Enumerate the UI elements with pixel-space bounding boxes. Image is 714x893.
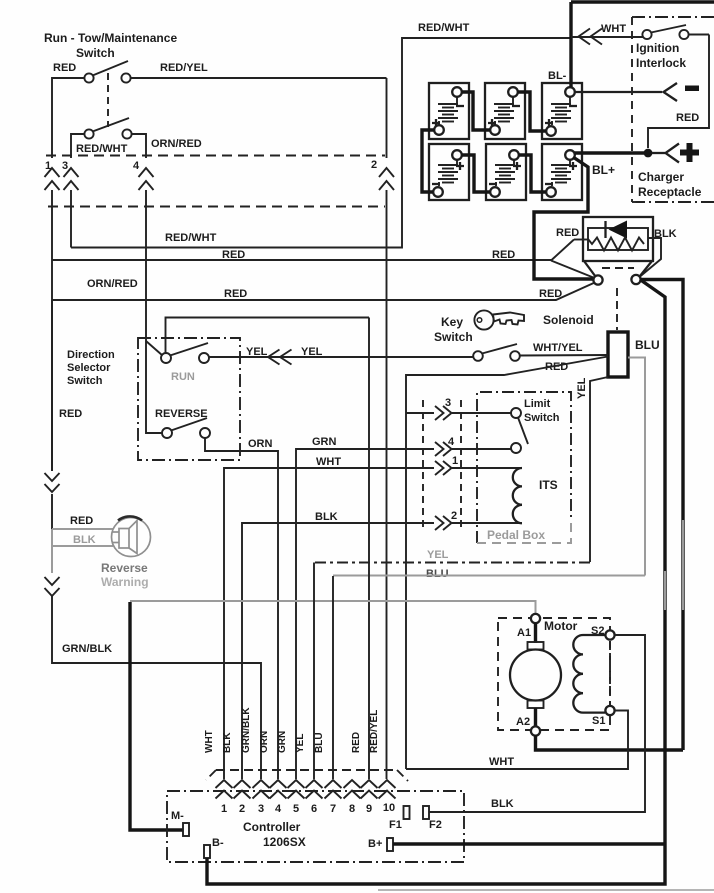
charger minus sign bbox=[685, 86, 699, 92]
svg-text:3: 3 bbox=[62, 160, 68, 172]
wire RED/YEL pole A to vertical bbox=[131, 77, 387, 79]
svg-text:RED/WHT: RED/WHT bbox=[76, 143, 128, 155]
dashed link S2-S1 bbox=[609, 641, 611, 705]
motor armature M1 bbox=[510, 623, 561, 727]
wire speaker BLK bbox=[52, 545, 113, 547]
reverse warning chevrons upper bbox=[45, 473, 60, 492]
battery B5 (row2) bbox=[486, 144, 526, 200]
speaker (reverse warning) bbox=[112, 518, 151, 557]
wire left bus lower bbox=[51, 300, 53, 529]
pin 9 bbox=[361, 780, 378, 799]
run-tow switch pole B bbox=[84, 118, 131, 139]
connector dashed line lower bbox=[48, 206, 385, 208]
svg-text:B+: B+ bbox=[368, 838, 382, 850]
wire RED interlock to charger plus bbox=[648, 35, 709, 149]
wire M- riser (thick) bbox=[130, 602, 184, 830]
svg-text:BLK: BLK bbox=[315, 511, 338, 523]
wire RUN common jog to pin9 riser bbox=[166, 318, 370, 354]
wire B2 to B3 bbox=[518, 92, 547, 131]
battery B1 terminals bbox=[452, 87, 462, 97]
svg-text:RED: RED bbox=[53, 62, 76, 74]
wire WHT pin1 to pedal 1 bbox=[224, 468, 521, 779]
svg-text:5: 5 bbox=[293, 803, 299, 815]
svg-text:1: 1 bbox=[452, 455, 458, 467]
wire GRN/BLK to pin3 bbox=[52, 596, 261, 779]
limit switch contacts bbox=[511, 408, 528, 453]
reverse warning chevrons lower bbox=[45, 577, 60, 596]
svg-text:RED: RED bbox=[224, 288, 247, 300]
terminal S2 bbox=[605, 630, 614, 639]
solenoid suppressor inner box bbox=[588, 228, 648, 250]
svg-text:Ignition: Ignition bbox=[636, 41, 679, 55]
solenoid contact dash bbox=[602, 267, 634, 269]
wire ORN/RED branch to RUN pole bbox=[146, 341, 163, 356]
wire pin7 lower bbox=[332, 576, 334, 779]
label Charger Receptacle bbox=[638, 170, 702, 199]
svg-text:RED/WHT: RED/WHT bbox=[418, 22, 470, 34]
charger plus sign bbox=[680, 143, 699, 162]
connector dashed line upper bbox=[46, 155, 385, 157]
wire RED bus y300 bbox=[52, 282, 597, 301]
svg-text:F1: F1 bbox=[389, 819, 402, 831]
svg-text:RED: RED bbox=[556, 227, 579, 239]
svg-text:2: 2 bbox=[239, 803, 245, 815]
svg-text:RED/YEL: RED/YEL bbox=[369, 710, 380, 753]
chevrons pedal 2 bbox=[435, 516, 452, 530]
wire ORN gap segments at pedal 3 bbox=[406, 412, 511, 414]
wire resistor right stub to solenoid terminal bbox=[640, 238, 661, 277]
terminal B+ bbox=[387, 838, 393, 851]
chevrons pedal 1 bbox=[435, 461, 452, 475]
svg-text:WHT: WHT bbox=[489, 756, 514, 768]
wire YEL coil to pedal-area riser bbox=[590, 377, 608, 562]
terminal A1 bbox=[531, 614, 540, 623]
inductor ITS bbox=[513, 468, 522, 523]
svg-text:6: 6 bbox=[311, 803, 317, 815]
svg-text:ORN/RED: ORN/RED bbox=[151, 138, 202, 150]
wire RED from pole A to node 1 bbox=[52, 78, 85, 158]
svg-text:Warning: Warning bbox=[101, 575, 149, 589]
svg-text:YEL: YEL bbox=[295, 734, 306, 753]
svg-text:7: 7 bbox=[330, 803, 336, 815]
svg-text:9: 9 bbox=[366, 803, 372, 815]
solenoid terminal right bbox=[631, 275, 640, 284]
connector chevrons node 4 bbox=[139, 168, 154, 190]
wire BLU coil right down bbox=[628, 358, 645, 576]
svg-text:10: 10 bbox=[383, 802, 395, 814]
wire speaker RED bbox=[52, 528, 113, 530]
wire dot to plus prong bbox=[652, 152, 665, 154]
svg-text:A1: A1 bbox=[517, 627, 531, 639]
wire RED/YEL vertical to controller pin10 bbox=[386, 78, 388, 779]
battery B6 terminals BL+ bbox=[565, 150, 575, 160]
terminal B- bbox=[204, 845, 210, 858]
svg-text:ORN: ORN bbox=[248, 438, 273, 450]
svg-text:Limit: Limit bbox=[524, 398, 551, 410]
wire RED diag to resistor stub bbox=[551, 240, 574, 261]
Run - Tow/Maintenance Switch label bbox=[44, 31, 177, 60]
svg-text:Switch: Switch bbox=[434, 330, 473, 344]
pin 1 bbox=[216, 780, 233, 799]
speaker dark arc bbox=[118, 516, 142, 520]
svg-text:1: 1 bbox=[221, 803, 227, 815]
wire WHT M- to A1 (gray) bbox=[130, 601, 536, 613]
wire YEL run to key switch bbox=[209, 356, 473, 358]
svg-text:ORN/RED: ORN/RED bbox=[87, 278, 138, 290]
svg-text:1206SX: 1206SX bbox=[263, 835, 306, 849]
svg-text:RED/YEL: RED/YEL bbox=[160, 62, 208, 74]
label Direction Selector Switch bbox=[67, 349, 115, 387]
direction selector box bbox=[138, 338, 240, 460]
svg-text:GRN: GRN bbox=[312, 436, 337, 448]
diode D1 cathode bar bbox=[604, 221, 606, 238]
wire B+ (thick) bbox=[393, 842, 665, 845]
terminal F2 bbox=[423, 806, 429, 819]
svg-text:A2: A2 bbox=[516, 716, 530, 728]
wire pole B right to node 4 bbox=[132, 134, 147, 158]
svg-text:BLU: BLU bbox=[426, 568, 449, 580]
svg-text:4: 4 bbox=[275, 803, 282, 815]
pedal box outline bbox=[477, 392, 571, 543]
terminal A2 bbox=[531, 726, 540, 735]
svg-text:GRN/BLK: GRN/BLK bbox=[62, 643, 112, 655]
wire pole B left to node 3 bbox=[71, 134, 85, 158]
svg-text:3: 3 bbox=[258, 803, 264, 815]
wire REVERSE out to pin4 bbox=[205, 438, 278, 779]
svg-text:Run - Tow/Maintenance: Run - Tow/Maintenance bbox=[44, 31, 177, 45]
wire battery feed top (thick) bbox=[571, 2, 714, 87]
solenoid plunger dashed link bbox=[616, 288, 618, 330]
svg-text:RED: RED bbox=[59, 408, 82, 420]
pin 2 bbox=[234, 780, 251, 799]
svg-text:S1: S1 bbox=[592, 715, 605, 727]
label Controller 1206SX bbox=[243, 820, 306, 849]
battery B2 (row1) bbox=[485, 83, 525, 139]
gray patch riser1 bbox=[664, 571, 666, 610]
svg-text:Direction: Direction bbox=[67, 349, 115, 361]
label Key Switch bbox=[434, 315, 473, 344]
svg-text:RED: RED bbox=[676, 112, 699, 124]
wire YEL dashed run to pin6 bbox=[314, 562, 590, 564]
svg-text:GRN: GRN bbox=[277, 731, 288, 753]
charger minus prong bbox=[664, 83, 678, 101]
wire B5 to B6 bbox=[519, 155, 547, 192]
wire B4 to B5 bbox=[462, 155, 491, 192]
battery B5 terminals bbox=[509, 150, 519, 160]
diode D1 bbox=[609, 221, 628, 239]
wire BL+ to charger dot bbox=[575, 151, 645, 154]
ignition interlock switch bbox=[642, 25, 709, 39]
run-tow switch pole A bbox=[84, 61, 130, 83]
REVERSE contacts bbox=[162, 418, 210, 438]
wire RED F1 riser to coil bbox=[406, 357, 608, 414]
svg-text:WHT: WHT bbox=[204, 730, 215, 753]
label Limit Switch bbox=[524, 398, 560, 424]
wire GRN pin5 to pedal 4 bbox=[296, 449, 511, 779]
battery B3 terminals BL- bbox=[565, 87, 575, 97]
svg-text:WHT: WHT bbox=[601, 23, 626, 35]
chevrons pedal 4 bbox=[435, 442, 452, 456]
key switch contacts bbox=[473, 344, 520, 361]
svg-text:BL+: BL+ bbox=[592, 163, 615, 177]
wire RED bus y260 bbox=[52, 259, 551, 261]
wire pin9 riser bbox=[368, 318, 370, 780]
svg-text:Pedal Box: Pedal Box bbox=[487, 528, 545, 542]
svg-text:WHT: WHT bbox=[316, 456, 341, 468]
svg-text:BLK: BLK bbox=[491, 798, 514, 810]
wire BLU run to pin7 bbox=[333, 575, 645, 577]
wire speaker drop bbox=[51, 529, 53, 573]
svg-text:Controller: Controller bbox=[243, 820, 301, 834]
wire WHT/YEL key switch to coil bbox=[520, 354, 609, 357]
solenoid trapezoid right side bbox=[640, 261, 652, 276]
svg-text:RED: RED bbox=[351, 732, 362, 753]
svg-text:Switch: Switch bbox=[67, 375, 103, 387]
label Reverse Warning bbox=[101, 561, 149, 589]
wire resistor left stub bbox=[574, 239, 588, 241]
svg-text:Motor: Motor bbox=[544, 619, 578, 633]
wire S1 to F1 (WHT) bbox=[406, 711, 628, 770]
svg-text:Selector: Selector bbox=[67, 362, 111, 374]
battery B4 terminals bbox=[452, 150, 462, 160]
wire WHT interlock line bbox=[571, 36, 643, 38]
svg-text:Solenoid: Solenoid bbox=[543, 313, 594, 327]
label Ignition Interlock bbox=[636, 41, 686, 70]
wire S2 to F2 (BLK) bbox=[429, 635, 645, 812]
solenoid coil (BLU) bbox=[608, 332, 628, 377]
pin 5 bbox=[288, 780, 305, 799]
pin 4 bbox=[270, 780, 287, 799]
connector chevrons node 1 bbox=[45, 168, 60, 190]
pin 3 bbox=[253, 780, 270, 799]
svg-text:RUN: RUN bbox=[171, 371, 195, 383]
svg-text:YEL: YEL bbox=[576, 377, 588, 399]
gray patch riser2 bbox=[682, 520, 684, 610]
wire F1 riser down bbox=[405, 413, 407, 769]
ignition interlock box bbox=[632, 16, 714, 18]
terminal M- bbox=[183, 823, 189, 836]
svg-text:8: 8 bbox=[349, 803, 355, 815]
svg-text:BLK: BLK bbox=[73, 534, 96, 546]
svg-text:REVERSE: REVERSE bbox=[155, 408, 208, 420]
pedal connector dashed left bbox=[422, 400, 424, 528]
key icon bbox=[474, 310, 524, 329]
svg-text:4: 4 bbox=[133, 160, 140, 172]
svg-text:2: 2 bbox=[451, 510, 457, 522]
wire BL- to charger minus bbox=[575, 91, 663, 93]
junction dot charger plus bbox=[644, 149, 653, 158]
solenoid terminal left bbox=[593, 275, 602, 284]
pin 6 bbox=[306, 780, 323, 799]
svg-text:Charger: Charger bbox=[638, 170, 684, 184]
svg-text:Receptacle: Receptacle bbox=[638, 185, 702, 199]
battery B6 (row2) bbox=[542, 144, 582, 200]
battery B4 (row2) bbox=[429, 144, 469, 200]
svg-text:BLU: BLU bbox=[635, 338, 660, 352]
wire pin6 lower bbox=[313, 563, 315, 780]
field winding S2-S1 bbox=[573, 635, 605, 713]
controller box bbox=[167, 791, 464, 862]
solenoid trapezoid left side bbox=[584, 261, 596, 277]
pin 8 bbox=[344, 780, 361, 799]
battery B1 (row1) bbox=[429, 83, 469, 139]
gang link dashed (run-tow) bbox=[107, 73, 109, 127]
wire solenoid right to B+ riser bbox=[640, 280, 665, 846]
chevrons WHT line bbox=[579, 29, 603, 45]
svg-text:Switch: Switch bbox=[76, 46, 115, 60]
wire solenoid right to A2 riser bbox=[641, 280, 684, 751]
svg-text:BLU: BLU bbox=[314, 732, 325, 753]
svg-text:ITS: ITS bbox=[539, 478, 558, 492]
svg-text:BL-: BL- bbox=[548, 70, 567, 82]
wire BLK pin2 to pedal 2 bbox=[242, 523, 522, 779]
svg-text:Interlock: Interlock bbox=[636, 56, 686, 70]
terminal F1 bbox=[404, 806, 410, 819]
svg-text:RED: RED bbox=[70, 515, 93, 527]
solenoid outer box bbox=[583, 217, 653, 261]
chevrons pedal 3 bbox=[435, 406, 452, 420]
svg-text:YEL: YEL bbox=[427, 549, 449, 561]
svg-text:M-: M- bbox=[171, 810, 184, 822]
battery B2 terminals bbox=[508, 87, 518, 97]
wire BL+ down to solenoid (thick) bbox=[534, 157, 594, 279]
wire B- bottom (thick) bbox=[207, 845, 665, 884]
terminal S1 bbox=[605, 706, 614, 715]
wire RED/WHT bus bbox=[71, 38, 571, 248]
resistor R1 bbox=[588, 238, 644, 251]
wire A2 to right riser (thick) bbox=[536, 735, 684, 750]
pedal box gray bottom bbox=[477, 521, 571, 543]
svg-text:RED/WHT: RED/WHT bbox=[165, 232, 217, 244]
page edge line (faint) bbox=[378, 889, 714, 891]
wire node3 down to RED/WHT bus bbox=[70, 190, 72, 248]
RUN contacts bbox=[161, 343, 209, 363]
svg-text:B-: B- bbox=[212, 837, 224, 849]
wire node1 down to RED bus bbox=[51, 190, 53, 471]
svg-text:GRN/BLK: GRN/BLK bbox=[241, 707, 252, 753]
svg-text:F2: F2 bbox=[429, 819, 442, 831]
connector chevrons node 2 bbox=[379, 168, 394, 190]
svg-text:WHT/YEL: WHT/YEL bbox=[533, 342, 583, 354]
motor box bbox=[498, 618, 610, 730]
svg-text:Key: Key bbox=[441, 315, 463, 329]
svg-text:Switch: Switch bbox=[524, 412, 560, 424]
wire B1 to B4 bbox=[422, 130, 435, 192]
pin 10 bbox=[379, 780, 396, 799]
charger plus prong bbox=[666, 144, 680, 163]
wire B1 to B2 bbox=[462, 92, 491, 130]
svg-text:BLK: BLK bbox=[222, 732, 233, 753]
pin 7 bbox=[325, 780, 342, 799]
wire node4 ORN/RED down to direction selector bbox=[146, 190, 162, 433]
connector chevrons node 3 bbox=[64, 168, 79, 190]
chevrons YEL line bbox=[268, 350, 292, 365]
pedal connector dashed right bbox=[460, 400, 462, 528]
battery B3 (row1) bbox=[542, 83, 582, 139]
wire RED diag to solenoid terminal bbox=[551, 261, 597, 280]
svg-text:Reverse: Reverse bbox=[101, 561, 148, 575]
controller connector dashed line bbox=[206, 770, 408, 781]
svg-text:2: 2 bbox=[371, 159, 377, 171]
svg-text:ORN: ORN bbox=[259, 731, 270, 753]
